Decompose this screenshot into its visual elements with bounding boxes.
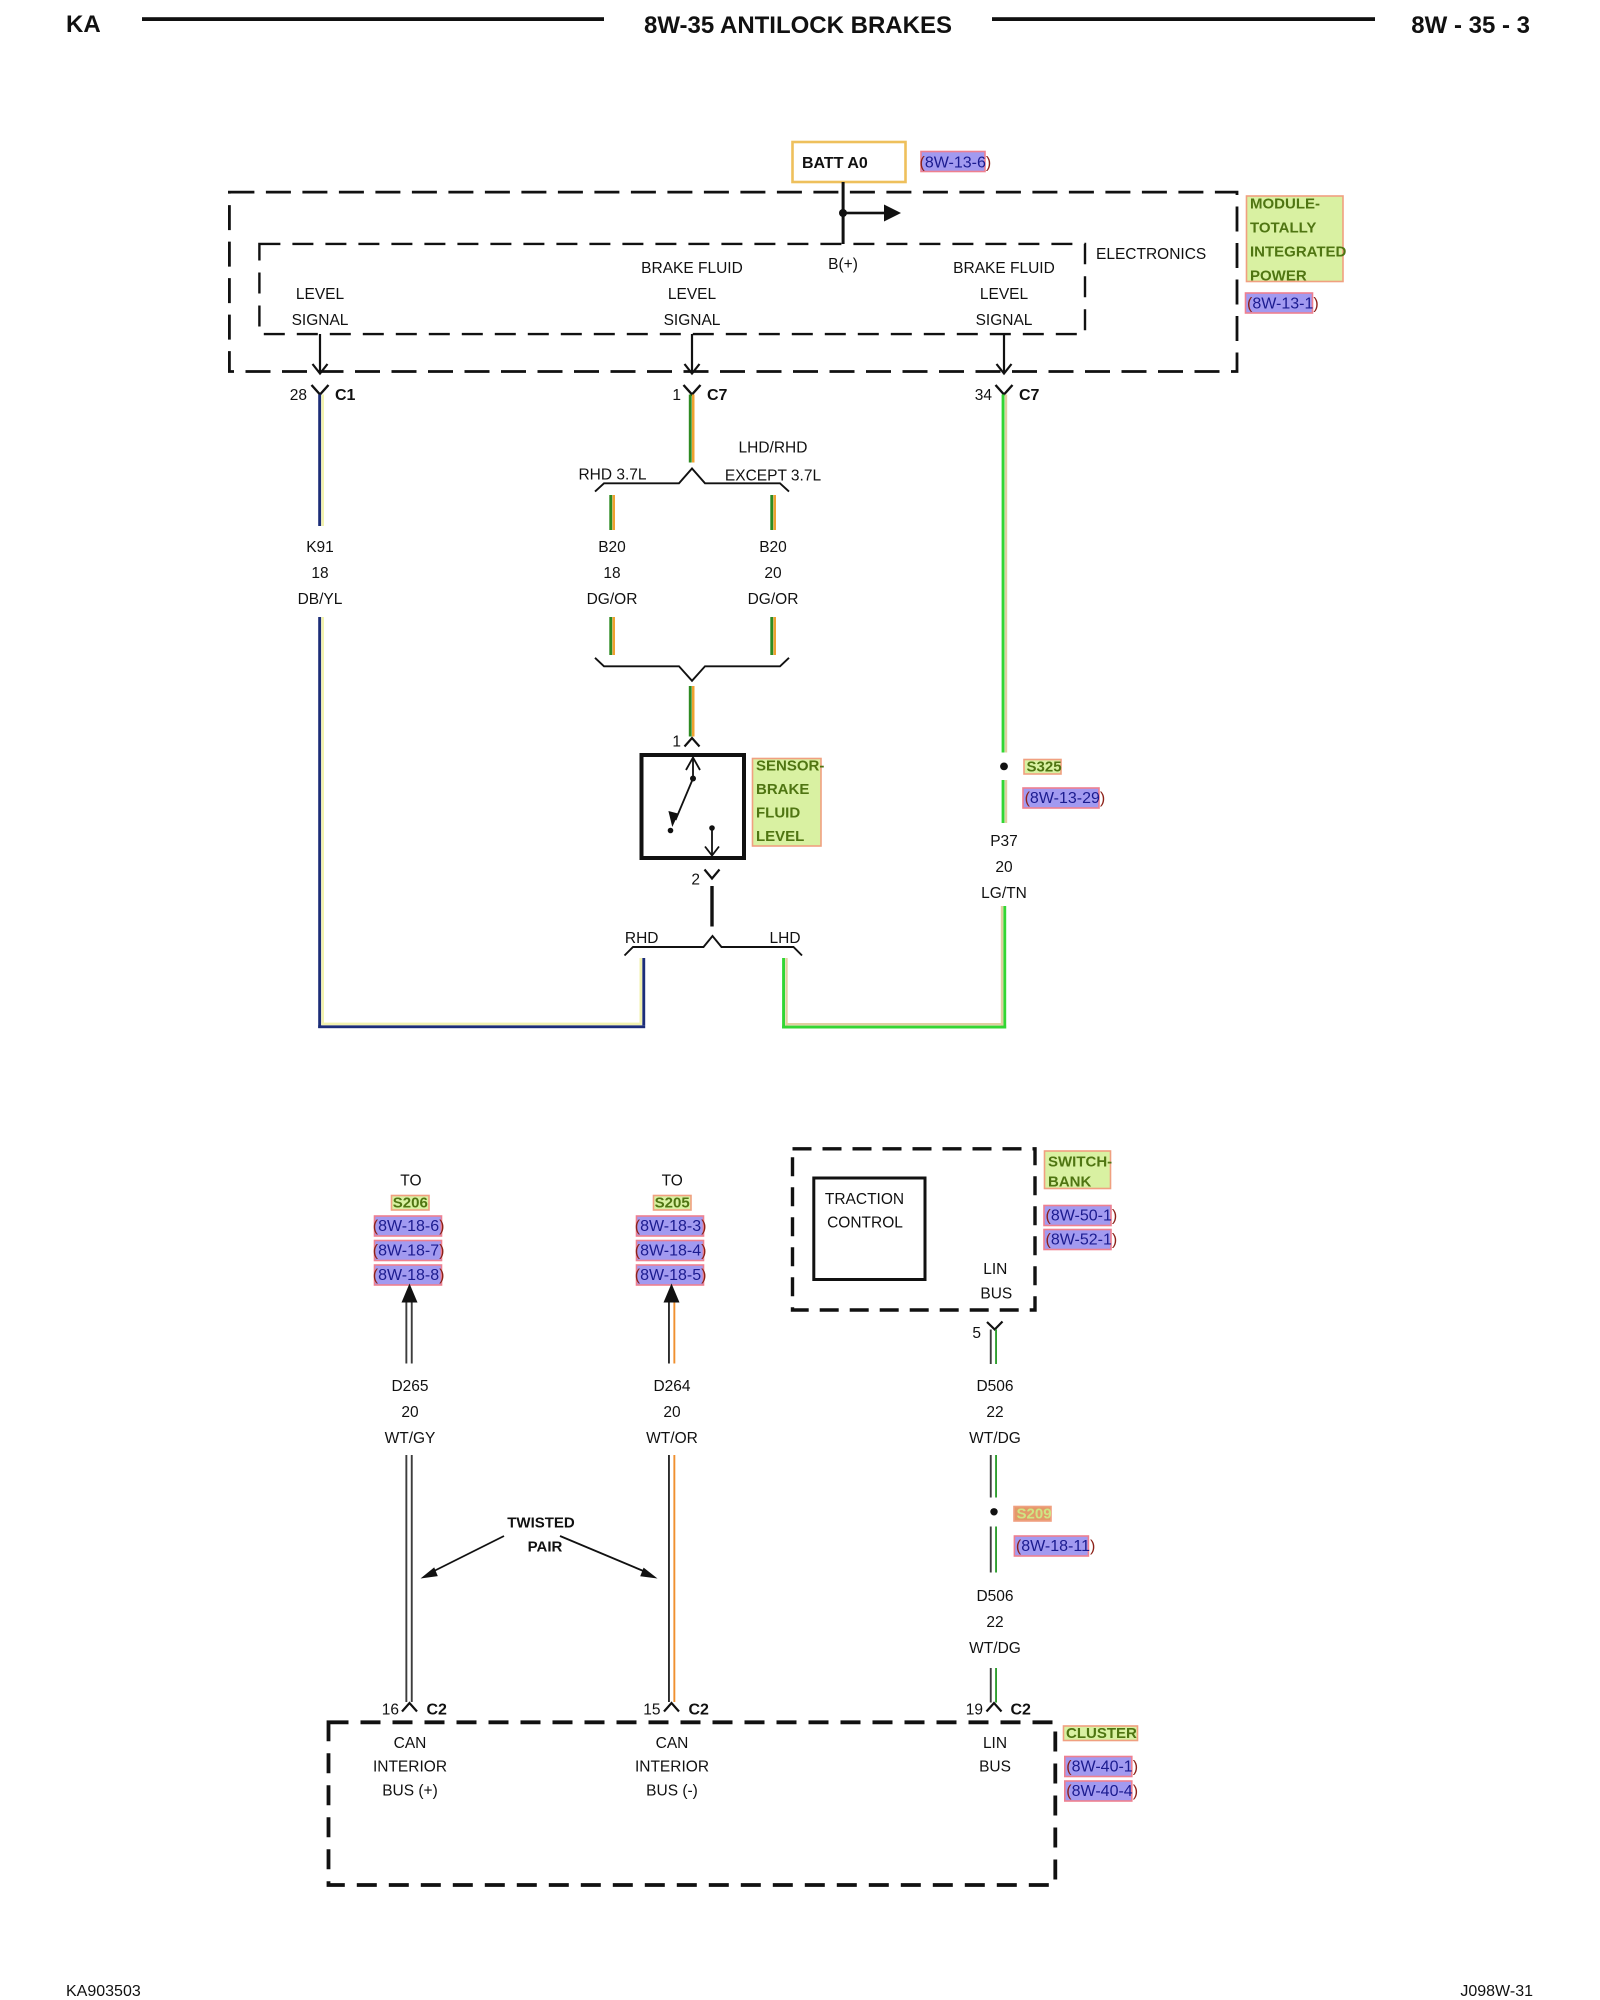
connector sensor pin 2 [691, 870, 719, 889]
svg-text:(8W-40-1): (8W-40-1) [1066, 1759, 1138, 1776]
svg-text:WT/DG: WT/DG [969, 1430, 1021, 1447]
svg-text:TO: TO [400, 1172, 421, 1189]
wire module output arrow pin 34 [997, 334, 1012, 374]
svg-text:(8W-18-7): (8W-18-7) [373, 1243, 445, 1260]
twisted pair pointer left [421, 1536, 505, 1579]
svg-text:8W - 35 - 3: 8W - 35 - 3 [1411, 12, 1530, 39]
component label SWITCH-BANK [1045, 1151, 1113, 1191]
svg-text:P37: P37 [990, 833, 1018, 850]
svg-text:LIN: LIN [983, 1261, 1007, 1278]
reference link (8W-18-8) [373, 1265, 445, 1285]
svg-text:(8W-13-29): (8W-13-29) [1025, 790, 1106, 807]
svg-text:J098W-31: J098W-31 [1460, 1983, 1533, 2000]
svg-text:22: 22 [986, 1614, 1003, 1631]
reference link (8W-18-11) [1014, 1536, 1095, 1556]
svg-text:KA903503: KA903503 [66, 1983, 141, 2000]
svg-text:D264: D264 [653, 1378, 690, 1395]
svg-text:18: 18 [311, 565, 328, 582]
svg-text:S325: S325 [1027, 759, 1062, 776]
reference link (8W-18-5) [635, 1265, 707, 1285]
svg-text:WT/DG: WT/DG [969, 1640, 1021, 1657]
wire label P37 20 LG/TN (below splice) [981, 833, 1027, 902]
svg-text:SIGNAL: SIGNAL [664, 312, 721, 329]
wire module output arrow pin 28 [313, 334, 328, 374]
pin label LIN BUS (cluster) [979, 1735, 1011, 1776]
header rule left [142, 17, 604, 21]
svg-text:MODULE-: MODULE- [1250, 196, 1320, 213]
svg-text:(8W-18-11): (8W-18-11) [1016, 1538, 1095, 1555]
wire LHD branch LG/TN riser [782, 958, 788, 1029]
svg-text:LEVEL: LEVEL [756, 828, 804, 845]
svg-text:S206: S206 [393, 1195, 428, 1212]
svg-text:SWITCH-: SWITCH- [1048, 1154, 1112, 1171]
svg-text:20: 20 [401, 1404, 419, 1421]
svg-text:ELECTRONICS: ELECTRONICS [1096, 246, 1206, 263]
svg-text:BUS (+): BUS (+) [382, 1782, 438, 1799]
wire D265 WT/GY upper segment [405, 1303, 412, 1364]
svg-text:D265: D265 [391, 1378, 428, 1395]
svg-text:C7: C7 [707, 387, 728, 404]
wire label K91 18 DB/YL [298, 539, 343, 608]
svg-text:(8W-40-4): (8W-40-4) [1066, 1783, 1138, 1800]
wire module output arrow pin 1 [685, 334, 700, 374]
reference link (8W-13-1) [1246, 293, 1319, 313]
svg-text:C7: C7 [1019, 387, 1040, 404]
wire sensor pin 2 black segment [710, 886, 713, 927]
wire B20 DG/OR right branch upper stub [770, 495, 776, 530]
wire label B20 18 DG/OR (left branch) [587, 539, 638, 608]
reference link (8W-13-29) [1023, 788, 1105, 808]
svg-text:DG/OR: DG/OR [748, 591, 799, 608]
connector C7 pin 34 [975, 385, 1040, 404]
svg-text:20: 20 [995, 859, 1013, 876]
svg-text:8W-35 ANTILOCK BRAKES: 8W-35 ANTILOCK BRAKES [644, 12, 952, 39]
svg-text:TOTALLY: TOTALLY [1250, 220, 1316, 237]
connector C7 pin 1 [672, 385, 727, 404]
wire D506 WT/DG segment to splice [990, 1455, 997, 1498]
svg-text:(8W-18-4): (8W-18-4) [635, 1243, 707, 1260]
fuse feed box BATT A0 [793, 142, 906, 182]
svg-text:BRAKE: BRAKE [756, 781, 809, 798]
svg-text:D506: D506 [976, 1588, 1013, 1605]
module cluster dashed box [329, 1722, 1056, 1885]
svg-text:D506: D506 [976, 1378, 1013, 1395]
component label CLUSTER [1064, 1725, 1138, 1742]
svg-text:LEVEL: LEVEL [296, 286, 345, 303]
wire LG/TN from C7 pin 34 down to splice S325 [1002, 395, 1008, 753]
svg-text:1: 1 [672, 387, 681, 404]
svg-text:BUS: BUS [980, 1285, 1012, 1302]
svg-text:SIGNAL: SIGNAL [292, 312, 349, 329]
svg-text:PAIR: PAIR [528, 1539, 563, 1556]
connector C2 pin 19 [966, 1702, 1031, 1719]
sensor internal pin 1 lead with arrowhead [686, 758, 700, 782]
wire K91 DB/YL right riser to RHD branch [640, 958, 646, 1025]
svg-text:B20: B20 [598, 539, 626, 556]
svg-text:BATT A0: BATT A0 [802, 155, 868, 172]
connector sensor pin 1 [672, 734, 699, 751]
component label SENSOR-BRAKE FLUID LEVEL [753, 758, 825, 847]
svg-text:18: 18 [603, 565, 620, 582]
svg-text:FLUID: FLUID [756, 805, 800, 822]
svg-text:C2: C2 [689, 1702, 710, 1719]
reference link (8W-50-1) [1044, 1206, 1117, 1226]
option split brace RHD 3.7L / LHD/RHD EXCEPT 3.7L [595, 469, 789, 492]
module TIPM outer dashed box [229, 192, 1237, 371]
svg-text:5: 5 [972, 1325, 981, 1342]
svg-text:WT/OR: WT/OR [646, 1430, 698, 1447]
svg-text:CAN: CAN [656, 1735, 689, 1752]
wire B20 DG/OR merged segment to sensor pin 1 [689, 686, 695, 737]
svg-text:BUS (-): BUS (-) [646, 1782, 698, 1799]
connector C2 pin 15 [643, 1702, 709, 1719]
reference link (8W-40-4) [1065, 1781, 1138, 1801]
splice label S325 [1024, 759, 1062, 776]
reference link (8W-18-3) [635, 1216, 707, 1236]
component switch bank outer dashed box [793, 1149, 1036, 1310]
svg-text:C1: C1 [335, 387, 356, 404]
wire label D264 20 WT/OR [646, 1378, 698, 1447]
svg-text:TRACTION: TRACTION [825, 1191, 904, 1208]
svg-text:INTEGRATED: INTEGRATED [1250, 244, 1347, 261]
svg-text:TWISTED: TWISTED [507, 1515, 575, 1532]
svg-text:C2: C2 [427, 1702, 448, 1719]
svg-text:LHD/RHD: LHD/RHD [739, 440, 808, 457]
pin label CAN INTERIOR BUS (+) [373, 1735, 447, 1800]
svg-text:34: 34 [975, 387, 993, 404]
wire D264 arrowhead to S205 [664, 1284, 680, 1303]
component SENSOR-BRAKE FLUID LEVEL box [642, 755, 745, 858]
option merge brace [595, 658, 789, 681]
svg-text:LEVEL: LEVEL [980, 286, 1029, 303]
svg-text:22: 22 [986, 1404, 1003, 1421]
svg-text:CONTROL: CONTROL [827, 1215, 903, 1232]
svg-text:(8W-18-5): (8W-18-5) [635, 1267, 707, 1284]
header rule right [992, 17, 1375, 21]
svg-text:20: 20 [663, 1404, 681, 1421]
svg-text:B20: B20 [759, 539, 787, 556]
svg-text:19: 19 [966, 1702, 983, 1719]
wire battery feed A0 vertical [842, 182, 845, 244]
svg-text:(8W-18-8): (8W-18-8) [373, 1267, 445, 1284]
svg-text:SIGNAL: SIGNAL [976, 312, 1033, 329]
module TIPM inner electronics dashed box [259, 244, 1085, 334]
splice reference label S205 [654, 1195, 692, 1212]
svg-text:20: 20 [764, 565, 782, 582]
svg-text:2: 2 [691, 872, 700, 889]
svg-text:LG/TN: LG/TN [981, 885, 1027, 902]
pin label BRAKE FLUID LEVEL SIGNAL (right) [953, 260, 1055, 329]
pin label LIN BUS (switch bank) [980, 1261, 1012, 1303]
svg-text:KA: KA [66, 11, 101, 38]
wire B20 DG/OR right branch lower stub [770, 617, 776, 655]
svg-text:15: 15 [643, 1702, 660, 1719]
svg-text:LHD: LHD [770, 930, 801, 947]
note label TWISTED PAIR [507, 1515, 575, 1556]
component label MODULE-TOTALLY INTEGRATED POWER [1247, 196, 1347, 285]
reference link (8W-40-1) [1065, 1757, 1138, 1777]
wire D506 WT/DG below splice [990, 1527, 997, 1573]
reference link (8W-18-4) [635, 1241, 707, 1261]
wire D506 WT/DG bottom stub [990, 1668, 997, 1703]
svg-text:RHD 3.7L: RHD 3.7L [578, 467, 646, 484]
svg-text:LIN: LIN [983, 1735, 1007, 1752]
pin label BRAKE FLUID LEVEL SIGNAL (middle) [641, 260, 743, 329]
svg-text:BRAKE FLUID: BRAKE FLUID [953, 260, 1055, 277]
wire P37 LG/TN below splice [1002, 780, 1008, 823]
switch TRACTION CONTROL box [814, 1178, 925, 1280]
svg-text:POWER: POWER [1250, 268, 1307, 285]
wire B20 DG/OR left branch lower stub [609, 617, 615, 655]
splice reference label S206 [392, 1195, 430, 1212]
connector C2 pin 16 [382, 1702, 447, 1719]
pin label CAN INTERIOR BUS (-) [635, 1735, 709, 1800]
reference link (8W-52-1) [1044, 1230, 1117, 1250]
svg-text:CAN: CAN [394, 1735, 427, 1752]
svg-text:S209: S209 [1017, 1506, 1052, 1523]
wire D506 WT/DG upper stub [990, 1330, 997, 1365]
svg-text:WT/GY: WT/GY [385, 1430, 436, 1447]
svg-text:CLUSTER: CLUSTER [1066, 1725, 1137, 1742]
svg-text:TO: TO [662, 1172, 683, 1189]
svg-text:INTERIOR: INTERIOR [635, 1759, 709, 1776]
wire B20 DG/OR stub below C7 pin 1 [689, 395, 695, 463]
wire label D506 22 WT/DG (upper) [969, 1378, 1021, 1447]
svg-text:DB/YL: DB/YL [298, 591, 343, 608]
wire K91 DB/YL bottom horizontal run [318, 1023, 645, 1029]
wire D264 WT/OR upper segment [668, 1303, 675, 1364]
splice S209 [990, 1508, 997, 1515]
svg-text:K91: K91 [306, 539, 334, 556]
svg-text:(8W-13-6): (8W-13-6) [920, 155, 992, 172]
reference link (8W-13-6) [920, 152, 992, 172]
svg-text:(8W-52-1): (8W-52-1) [1046, 1232, 1118, 1249]
svg-text:1: 1 [672, 734, 681, 751]
svg-text:SENSOR-: SENSOR- [756, 758, 824, 775]
svg-text:RHD: RHD [625, 930, 659, 947]
svg-text:S205: S205 [655, 1195, 690, 1212]
option split brace RHD / LHD [625, 936, 803, 956]
wire D265 WT/GY lower segment [405, 1455, 412, 1702]
svg-text:16: 16 [382, 1702, 399, 1719]
splice label S209 [1014, 1506, 1052, 1523]
wire D265 arrowhead to S206 [402, 1284, 418, 1303]
svg-text:28: 28 [290, 387, 307, 404]
svg-text:C2: C2 [1011, 1702, 1032, 1719]
connector C1 pin 28 [290, 385, 356, 404]
svg-text:(8W-13-1): (8W-13-1) [1247, 296, 1319, 313]
svg-text:B(+): B(+) [828, 256, 858, 273]
wire LG/TN bottom horizontal run [782, 1023, 1006, 1029]
svg-text:(8W-18-6): (8W-18-6) [373, 1218, 445, 1235]
sensor internal pin 2 contact with arrowhead [705, 825, 719, 855]
wire label D506 22 WT/DG (lower) [969, 1588, 1021, 1657]
twisted pair pointer right [560, 1536, 658, 1579]
sensor switch lever with arrowhead [668, 779, 693, 834]
svg-text:BUS: BUS [979, 1759, 1011, 1776]
svg-text:BRAKE FLUID: BRAKE FLUID [641, 260, 743, 277]
pin label LEVEL SIGNAL (left) [292, 286, 349, 329]
wire D264 WT/OR lower segment [668, 1455, 675, 1702]
svg-text:LEVEL: LEVEL [668, 286, 717, 303]
reference link (8W-18-7) [373, 1241, 445, 1261]
svg-text:EXCEPT 3.7L: EXCEPT 3.7L [725, 468, 822, 485]
splice S325 [1000, 763, 1008, 771]
svg-text:DG/OR: DG/OR [587, 591, 638, 608]
wire label D265 20 WT/GY [385, 1378, 436, 1447]
svg-text:INTERIOR: INTERIOR [373, 1759, 447, 1776]
connector switch bank pin 5 [972, 1322, 1002, 1343]
wire label B20 20 DG/OR (right branch) [748, 539, 799, 608]
wire P37 LG/TN lower segment to corner [1001, 906, 1006, 1029]
wire battery branch horizontal with arrow [843, 205, 901, 222]
reference link (8W-18-6) [373, 1216, 445, 1236]
svg-text:(8W-50-1): (8W-50-1) [1046, 1208, 1118, 1225]
junction battery feed [839, 209, 847, 217]
wire K91 DB/YL long segment down to corner [318, 617, 324, 1028]
wire K91 DB/YL upper segment [318, 395, 324, 527]
wire B20 DG/OR left branch upper stub [609, 495, 615, 530]
svg-text:BANK: BANK [1048, 1174, 1091, 1191]
svg-text:(8W-18-3): (8W-18-3) [635, 1218, 707, 1235]
